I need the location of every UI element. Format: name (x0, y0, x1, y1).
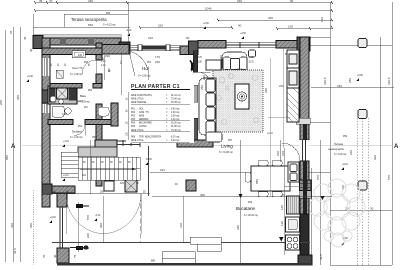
svg-text:560: 560 (88, 23, 93, 27)
dimension frame top line 1 (33, 3, 332, 29)
svg-text:P04: P04 (78, 126, 83, 128)
svg-text:S = 20,20 mp: S = 20,20 mp (244, 215, 258, 217)
right wall chimney dark (300, 214, 309, 258)
right wall kitchen door opening (300, 140, 310, 161)
svg-text:+0,10: +0,10 (342, 164, 349, 166)
pergola column right top (358, 39, 367, 48)
svg-text:P06: P06 (131, 126, 136, 128)
pergola column right lower (358, 181, 367, 190)
interior wall cam th/baie horizontal (50, 84, 82, 89)
top wall piece mid (180, 46, 198, 55)
svg-text:280: 280 (348, 78, 352, 83)
svg-text:242: 242 (160, 168, 165, 172)
hol label (138, 62, 152, 78)
svg-text:210: 210 (78, 99, 83, 103)
level marker left porch (49, 217, 57, 223)
svg-text:±0.00: ±0.00 (146, 159, 152, 161)
svg-text:2,10: 2,10 (124, 43, 129, 45)
svg-text:ARIE CONSTRUITA: ARIE CONSTRUITA (131, 94, 152, 97)
svg-text:30: 30 (370, 207, 374, 211)
small marker +2.50 left (126, 30, 132, 36)
svg-text:+2.50: +2.50 (203, 23, 210, 25)
svg-text:6,15 mp: 6,15 mp (171, 137, 180, 139)
svg-text:240: 240 (219, 55, 223, 60)
svg-text:P02: P02 (131, 112, 136, 114)
stairwell right edge line (148, 146, 150, 196)
left bottom corner block (42, 184, 52, 194)
cam th furniture (72, 51, 85, 58)
svg-text:+0,10: +0,10 (267, 133, 274, 135)
sill line right of wall (310, 121, 330, 123)
tree right terrace light scalloped (309, 179, 365, 247)
svg-text:+1,11: +1,11 (63, 175, 69, 177)
porch bottom column (57, 248, 69, 263)
svg-text:9,20 mp: 9,20 mp (171, 140, 180, 142)
svg-text:Baie: Baie (80, 94, 86, 98)
level marker ±0.00 hol (145, 159, 152, 165)
svg-text:230: 230 (105, 54, 110, 58)
svg-text:230: 230 (276, 151, 280, 156)
svg-text:240: 240 (237, 67, 242, 71)
left exterior wall (42, 38, 50, 186)
svg-text:850: 850 (5, 155, 9, 160)
svg-text:45: 45 (23, 36, 27, 40)
svg-text:280: 280 (264, 88, 268, 93)
front door posts and leaf (138, 45, 142, 51)
dining chairs (246, 161, 296, 197)
living sw corner column (186, 180, 196, 191)
hol left dim cluster (100, 55, 111, 73)
interior wall terasa/cam th horizontal (42, 48, 102, 55)
top wall piece right (276, 41, 310, 49)
coffee table (235, 84, 249, 109)
left paving dotted line (33, 190, 35, 265)
stairwell lower wall block (125, 180, 137, 192)
svg-text:3,28 mp: 3,28 mp (171, 116, 180, 118)
svg-text:P03: P03 (88, 90, 93, 92)
svg-text:240: 240 (249, 55, 254, 59)
svg-text:2,10: 2,10 (101, 61, 106, 63)
level marker above living window (240, 33, 247, 39)
hol/living door swing (198, 72, 211, 85)
svg-text:260: 260 (349, 150, 353, 155)
svg-text:260: 260 (0, 100, 3, 105)
svg-text:TER. NEACOPERITA: TER. NEACOPERITA (139, 136, 162, 139)
interior wall rooms/hol vertical (96, 43, 102, 60)
kitchen door swing right (282, 143, 300, 161)
svg-text:230: 230 (237, 0, 242, 3)
svg-text:220: 220 (158, 24, 163, 28)
svg-text:570: 570 (316, 175, 320, 180)
svg-text:340: 340 (337, 84, 342, 88)
cam th label (70, 62, 89, 76)
svg-text:31,80 mp: 31,80 mp (171, 126, 181, 128)
bottom-left wall segment (52, 186, 75, 193)
debara label (70, 126, 97, 139)
right-of-stairs dim stack (127, 97, 129, 136)
svg-text:40: 40 (29, 48, 33, 52)
svg-text:570: 570 (86, 215, 90, 220)
svg-text:S = 31,80 mp: S = 31,80 mp (219, 152, 233, 154)
svg-text:430: 430 (268, 16, 273, 20)
svg-text:75: 75 (73, 254, 77, 258)
living room label (219, 140, 233, 154)
level marker porch (94, 215, 101, 221)
svg-text:A: A (394, 144, 399, 150)
svg-text:90: 90 (186, 36, 190, 40)
svg-text:90: 90 (238, 24, 242, 28)
svg-text:Cam Th: Cam Th (72, 66, 83, 70)
svg-text:3,60 mp: 3,60 mp (171, 109, 180, 111)
svg-text:Bucatarie: Bucatarie (236, 206, 256, 211)
svg-text:340: 340 (10, 223, 14, 228)
baie shower box (52, 106, 64, 117)
top terrace corner column left (33, 36, 43, 49)
debara door arc (74, 125, 85, 136)
porch verticals bottom-left (79, 196, 184, 252)
dimension frame right vertical lines (310, 2, 393, 266)
svg-text:Terasa neacoperita: Terasa neacoperita (71, 17, 107, 22)
svg-text:P05: P05 (131, 123, 136, 125)
svg-text:170: 170 (155, 55, 160, 59)
right dim line 340 (311, 87, 394, 89)
top terrace wall light band (33, 35, 121, 39)
dimension tick marks top (34, 1, 333, 30)
svg-text:320,5: 320,5 (387, 77, 391, 85)
svg-text:1046: 1046 (205, 7, 212, 11)
level marker living right (267, 133, 274, 135)
svg-text:42,5: 42,5 (319, 254, 323, 260)
svg-text:+1,10: +1,10 (63, 141, 70, 143)
living carpet stipple (213, 70, 263, 132)
sofa top seat (206, 50, 256, 70)
level marker left +3.40 (26, 76, 34, 82)
level marker +2.50 top (203, 23, 210, 29)
tv cabinet right (287, 50, 299, 122)
svg-text:280: 280 (16, 95, 20, 100)
left wall column block (42, 90, 50, 103)
svg-text:+0,50: +0,50 (357, 75, 364, 77)
dashed center line living (270, 58, 272, 196)
dimension frame left vertical lines (6, 2, 129, 262)
svg-text:2,10: 2,10 (101, 65, 106, 67)
level marker stairs left (62, 175, 69, 181)
fridge (287, 196, 300, 214)
svg-text:S = 2,40 mp: S = 2,40 mp (70, 137, 83, 139)
svg-text:P06: P06 (248, 202, 253, 204)
porch entry column block (57, 193, 67, 207)
legend terase rows (131, 136, 180, 143)
section cut marker lower porch (76, 246, 89, 250)
level marker debara (62, 141, 70, 147)
svg-text:+3,40: +3,40 (27, 76, 34, 78)
svg-text:230: 230 (155, 60, 160, 64)
svg-text:300: 300 (99, 223, 103, 228)
leader dot entrance (70, 247, 84, 249)
bottom terrace inner edge (52, 242, 310, 244)
hob 4 burners (286, 235, 300, 250)
front door window opening top (hol) (129, 46, 180, 50)
svg-text:A: A (11, 144, 16, 150)
svg-text:P08: P08 (106, 13, 111, 15)
armchair lower-left of carpet (206, 132, 222, 142)
section cut marker upper porch (76, 204, 89, 208)
front door swing hol (123, 51, 155, 83)
legend background (126, 80, 194, 143)
cam th inner dims (51, 63, 91, 66)
svg-text:880: 880 (255, 179, 259, 184)
bathroom plumbing dark cluster (48, 86, 77, 104)
svg-text:P08: P08 (131, 137, 136, 139)
2.10 marker near front door (124, 43, 129, 45)
interior wall under legend horizontal (95, 140, 117, 147)
stairs arrow (80, 168, 136, 170)
bottom porch dim line (42, 193, 150, 195)
svg-text:230: 230 (86, 233, 90, 238)
svg-text:160: 160 (280, 205, 284, 210)
svg-text:Living: Living (221, 144, 233, 149)
washing machine cam th (56, 70, 63, 78)
svg-text:S = 3,60 mp: S = 3,60 mp (138, 76, 151, 78)
svg-text:130: 130 (288, 25, 293, 29)
misc vertical dim lines interior (91, 52, 129, 194)
bucatarie label (236, 202, 258, 217)
svg-text:-0,10: -0,10 (95, 215, 101, 217)
svg-text:-2,10: -2,10 (126, 30, 132, 32)
kitchen/living dim verticals (241, 140, 281, 265)
terasa neacoperita right label (328, 136, 348, 156)
svg-text:ARIE UTILA: ARIE UTILA (131, 129, 144, 132)
right exterior wall lower (300, 161, 309, 232)
baie right wall block (111, 103, 118, 126)
marker triangle kitchen (239, 194, 243, 198)
svg-text:PLAN PARTER C1: PLAN PARTER C1 (131, 84, 180, 90)
svg-text:306: 306 (200, 193, 205, 197)
level marker +0.50 right terrace (341, 238, 349, 245)
svg-text:230: 230 (202, 75, 206, 80)
svg-text:BUCATARIE: BUCATARIE (139, 122, 152, 125)
svg-text:220: 220 (249, 60, 254, 64)
right wall dark core lower segment (303, 161, 307, 214)
bottom-right corner block (298, 255, 312, 265)
living window top (226, 42, 276, 48)
bottom steps (162, 252, 195, 265)
porch glass door lines left (60, 207, 63, 248)
svg-text:15,35 mp: 15,35 mp (171, 102, 181, 104)
svg-text:91,10 mp: 91,10 mp (171, 95, 181, 97)
svg-text:250: 250 (200, 85, 204, 90)
sofa left seat (199, 78, 216, 135)
svg-text:42,5: 42,5 (13, 248, 17, 254)
dining table (251, 166, 290, 191)
svg-text:S = 9.20 mp: S = 9.20 mp (334, 154, 347, 156)
svg-text:S = 6,15 mp: S = 6,15 mp (103, 25, 116, 27)
svg-text:73,40 mp: 73,40 mp (171, 99, 181, 101)
baie label (77, 90, 93, 109)
svg-text:35: 35 (39, 0, 43, 3)
svg-text:P07: P07 (228, 140, 233, 142)
kitchen sink (288, 162, 299, 182)
terasa neacoperita top label (71, 13, 116, 27)
svg-text:25: 25 (9, 30, 13, 34)
svg-text:HOL: HOL (139, 109, 144, 111)
legend block areas (131, 94, 181, 104)
svg-text:P01: P01 (131, 109, 136, 111)
right wall crosshatch column (300, 180, 312, 198)
pergola dashed roof lines right (358, 118, 369, 265)
svg-text:90: 90 (290, 0, 294, 3)
left wall extension to porch post (42, 194, 50, 207)
right wall dark core upper segment (303, 120, 307, 150)
svg-text:+0,10: +0,10 (50, 217, 57, 219)
carpet ornament swirls (217, 74, 259, 125)
kitchen exit upper steps (190, 237, 221, 251)
svg-text:100: 100 (62, 112, 67, 116)
svg-text:Debara: Debara (72, 130, 82, 134)
svg-text:20,20 mp: 20,20 mp (171, 123, 181, 125)
entrance double door swing arcs (66, 194, 141, 234)
interior wall hol/living vertical (193, 51, 198, 73)
cam th door arc (82, 60, 96, 74)
svg-text:40: 40 (53, 254, 57, 258)
svg-text:2,90 mp: 2,90 mp (171, 112, 180, 114)
stairs treads (78, 147, 117, 157)
svg-text:310: 310 (179, 223, 183, 228)
svg-text:230: 230 (88, 0, 93, 3)
oven (286, 217, 300, 232)
svg-text:70: 70 (42, 254, 46, 258)
svg-text:ARIE UTILA: ARIE UTILA (131, 98, 144, 101)
svg-text:340: 340 (236, 225, 240, 230)
svg-text:CAM. TH.: CAM. TH. (139, 111, 149, 114)
svg-text:BAIE: BAIE (139, 115, 145, 118)
legend rooms list (131, 109, 181, 133)
top terrace wall main band (33, 38, 121, 45)
svg-text:LIVING: LIVING (139, 126, 147, 128)
svg-text:70: 70 (49, 0, 53, 3)
window ledge right (296, 118, 310, 124)
dim line across mid 242 (150, 172, 330, 174)
svg-text:570: 570 (387, 175, 391, 180)
left wall window cam th (43, 58, 50, 76)
svg-text:P01: P01 (147, 62, 152, 64)
svg-text:ARIE UTILA: ARIE UTILA (131, 139, 144, 142)
svg-text:320,5: 320,5 (323, 77, 327, 85)
svg-text:+3,50: +3,50 (240, 33, 247, 35)
svg-text:140: 140 (280, 221, 284, 226)
hol top wall left segment (101, 45, 129, 55)
baie sink circle (65, 108, 71, 114)
svg-text:S = 2,90 mp: S = 2,90 mp (70, 74, 83, 76)
kitchen counter edge (283, 148, 285, 255)
marker triangle near hob (279, 237, 284, 242)
svg-text:P09: P09 (343, 136, 348, 138)
right exterior wall upper (300, 37, 309, 140)
porch column white below stairs (104, 181, 114, 191)
toilet near hol wall (98, 107, 109, 116)
svg-text:290: 290 (29, 223, 33, 228)
svg-text:120: 120 (320, 17, 324, 22)
column at terrace/house joint (119, 42, 130, 54)
svg-text:neacoperita: neacoperita (328, 147, 344, 151)
bottom terrace thick edge (57, 263, 312, 266)
interior wall baie/debara horizontal (48, 120, 73, 125)
svg-text:P03: P03 (131, 116, 136, 118)
marker triangle right (321, 196, 325, 200)
svg-text:930: 930 (373, 155, 377, 160)
door arrow marker hol/living (189, 60, 193, 72)
svg-text:210: 210 (148, 36, 153, 40)
top-right corner column (297, 37, 310, 51)
axis A line (22, 145, 96, 147)
stairs left flight horizontal treads (61, 152, 78, 177)
pergola column right middle (358, 110, 367, 119)
left wall window debara (43, 104, 50, 113)
svg-text:239: 239 (281, 151, 285, 156)
svg-text:ARIE TERASE: ARIE TERASE (131, 101, 147, 104)
hol small dim labels cluster (103, 57, 123, 72)
